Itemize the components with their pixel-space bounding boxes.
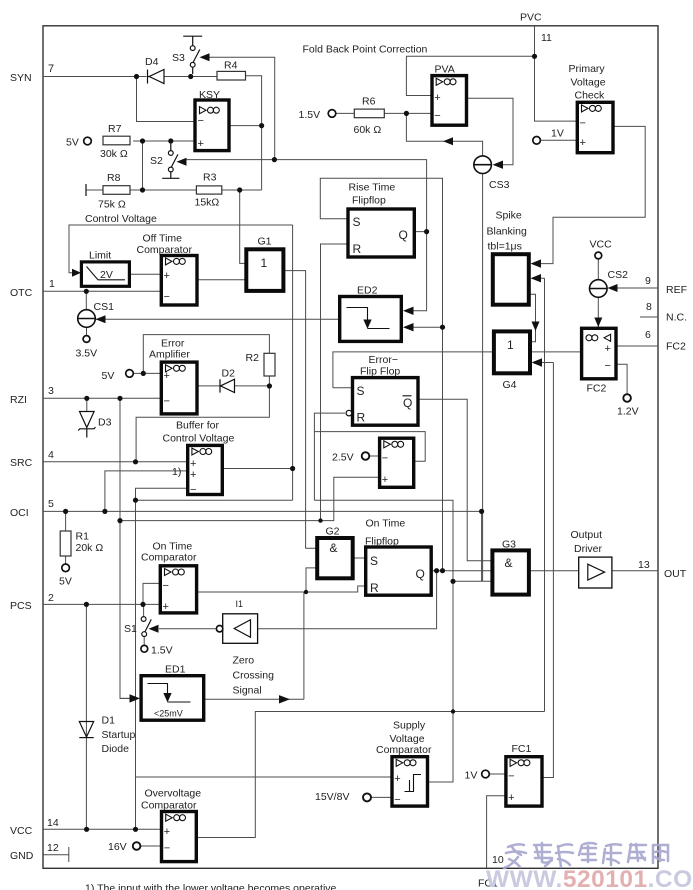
PVA symbol [436, 78, 443, 85]
svg-text:R1: R1 [76, 531, 90, 543]
arrow into ED2 top [403, 307, 414, 315]
svg-text:+: + [394, 773, 400, 785]
svg-text:Q: Q [416, 567, 425, 581]
svg-text:8: 8 [646, 301, 652, 313]
svg-text:+: + [164, 370, 170, 382]
svg-text:FC2: FC2 [666, 341, 686, 353]
wire S3 control from Q line [209, 57, 275, 159]
wire CS3 down [482, 174, 484, 582]
startup diode D1 [79, 722, 93, 738]
svg-text:Driver: Driver [574, 543, 603, 555]
terminal 5V at error amplifier [126, 370, 134, 378]
comparator KSY box [195, 100, 229, 151]
on time flipflop box [366, 547, 432, 595]
svg-text:GND: GND [10, 850, 34, 862]
svg-text:Buffer for: Buffer for [176, 420, 219, 432]
edge detector ED2 icon [347, 308, 390, 329]
KSY symbol [200, 107, 207, 114]
svg-text:14: 14 [47, 817, 59, 829]
wire G3 bottom input [453, 580, 492, 582]
wire ErrorFF S to G4 line [333, 352, 582, 388]
wire I1 input from Q [258, 571, 437, 629]
wire FC1 plus from pin10 [487, 796, 506, 868]
svg-text:<25mV: <25mV [154, 709, 183, 719]
svg-text:SRC: SRC [10, 457, 33, 469]
wire D2 to R2 bottom node [235, 376, 270, 386]
wire FC2 minus to 1.2V [616, 364, 627, 394]
wire zero cross column [303, 592, 305, 699]
terminal VCC at CS2 [595, 252, 602, 259]
terminal 3.5V [83, 336, 90, 343]
svg-text:15kΩ: 15kΩ [195, 197, 220, 209]
svg-text:R3: R3 [203, 172, 217, 184]
wire S1 top [143, 583, 160, 616]
wire R4 right to vertical [246, 76, 262, 190]
svg-text:5V: 5V [59, 576, 72, 588]
terminal 1.2V [623, 394, 631, 402]
output driver box [579, 557, 612, 588]
svg-text:OUT: OUT [664, 568, 687, 580]
svg-text:−: − [382, 453, 388, 465]
svg-text:Flipflop: Flipflop [365, 536, 399, 548]
wire 5V to ErrorAmp plus [134, 372, 162, 374]
arrow CS2 into FC2 [594, 318, 602, 328]
gate G4 box [494, 331, 530, 373]
wire OCI bus pin5 [43, 510, 482, 512]
svg-text:Amplifier: Amplifier [149, 349, 190, 361]
diode D2 [220, 379, 235, 392]
svg-text:D2: D2 [222, 368, 236, 380]
wire feedback down to SVC plus [136, 500, 393, 777]
terminal 2.5V [362, 452, 370, 460]
wire G3 out to driver [529, 570, 579, 572]
limit block icon 2V [87, 267, 126, 280]
wire S1 control from I1 [159, 628, 216, 630]
svg-text:REF: REF [666, 284, 687, 296]
svg-text:VCC: VCC [10, 825, 33, 837]
svg-text:15V/8V: 15V/8V [315, 791, 349, 803]
current source CS1 [78, 310, 96, 328]
rise time flipflop box [348, 209, 414, 257]
svg-text:CS1: CS1 [94, 301, 115, 313]
wire SYN pin7 [43, 76, 147, 78]
wire 5V R7 to KSY plus [133, 140, 195, 142]
edge detector ED1 box [141, 676, 204, 721]
terminal 1V at FC1 [482, 770, 490, 778]
wire ED1 input [120, 697, 132, 699]
wire OffTime comparator out to G1 [197, 279, 246, 281]
svg-text:S3: S3 [172, 52, 185, 64]
svg-text:1) The input with the lower vo: 1) The input with the lower voltage beco… [85, 883, 339, 890]
diode D4 [148, 70, 165, 84]
arrow into ED1 [130, 694, 141, 702]
svg-text:S: S [370, 554, 378, 568]
svg-text:5: 5 [48, 498, 54, 510]
on time comparator symbol [165, 569, 172, 576]
wire feedback down to VCC node [135, 777, 137, 829]
inverter I1 triangle and bubble [216, 620, 250, 638]
svg-text:10: 10 [492, 854, 504, 866]
resistor R6 [354, 109, 384, 118]
svg-text:OTC: OTC [10, 287, 33, 299]
wire OVC output loop [196, 712, 544, 838]
2.5V comparator symbol [384, 441, 391, 448]
wire PCS pin2 [43, 603, 160, 605]
svg-text:Flipflop: Flipflop [352, 195, 386, 207]
arrow into Limit [72, 269, 81, 277]
svg-text:R4: R4 [224, 60, 238, 72]
wire 15V8V to SVC minus [372, 796, 393, 798]
svg-text:S1: S1 [124, 623, 137, 635]
primary voltage check symbol [582, 105, 589, 112]
svg-text:Comparator: Comparator [137, 244, 193, 256]
wire R8 R3 line [86, 189, 262, 191]
wire R3 node down to G1 input [240, 190, 247, 263]
arrow into spike blanking 1 [531, 259, 542, 267]
svg-text:1: 1 [507, 338, 514, 352]
current source CS2 [590, 280, 608, 298]
wire spike blanking out to G4 [529, 294, 536, 342]
limit block box [81, 262, 129, 286]
svg-text:G3: G3 [502, 539, 516, 551]
arrowheads [72, 53, 618, 703]
svg-text:3: 3 [48, 385, 54, 397]
supply voltage comparator symbol [396, 759, 403, 766]
wire Rise FF Q down to ED2 arrow1 [412, 232, 427, 311]
off time comparator symbol [166, 258, 173, 265]
svg-text:Error−: Error− [369, 354, 398, 366]
arrow on R6 CS3 line [443, 137, 453, 145]
resistor R7 [103, 136, 130, 145]
wire OCI node up to buffer input2 [105, 471, 188, 512]
edge detector ED1 icon [148, 684, 191, 703]
wire FC1 output up to G4 [541, 363, 553, 778]
svg-text:Control Voltage: Control Voltage [163, 433, 235, 445]
svg-text:Check: Check [575, 90, 606, 102]
svg-text:−: − [394, 794, 400, 806]
wire R1 top [65, 511, 67, 531]
wire CS2 down to FC2 [597, 298, 599, 328]
svg-text:+: + [198, 138, 204, 150]
resistors [60, 71, 384, 556]
svg-text:ED2: ED2 [357, 285, 378, 297]
svg-text:1V: 1V [465, 770, 478, 782]
svg-text:5V: 5V [102, 370, 115, 382]
current source CS3 [474, 156, 492, 174]
wire S1 bottom to 1.5V [143, 637, 145, 646]
wire R2 node down and left to SRC node [136, 386, 269, 462]
error FF reset bubble [346, 410, 352, 416]
svg-text:KSY: KSY [199, 89, 220, 101]
wire FC2 plus pin6 [616, 345, 658, 347]
wire ErrorAmp out to D2 [197, 385, 220, 387]
wire NC pin8 stub [640, 316, 658, 318]
wire 1V to PVcheck plus [541, 139, 578, 141]
svg-text:Comparator: Comparator [141, 552, 197, 564]
overvoltage comparator symbol [166, 814, 173, 821]
svg-text:+: + [164, 826, 170, 838]
svg-text:−: − [164, 843, 170, 855]
wire OnTimeComp out up to G2 [306, 568, 317, 592]
wire 2.5V to comp minus [370, 455, 380, 457]
spike blanking box [493, 254, 529, 305]
svg-text:11: 11 [541, 32, 552, 44]
svg-text:Flip Flop: Flip Flop [360, 366, 400, 378]
svg-text:ED1: ED1 [165, 664, 186, 676]
svg-text:S2: S2 [150, 155, 163, 167]
svg-text:−: − [164, 291, 170, 303]
svg-text:−: − [434, 110, 440, 122]
switch S1 [141, 617, 151, 637]
component boxes [81, 76, 616, 862]
arrow into S3 [200, 53, 210, 61]
wire ErrorFF R input [314, 413, 345, 500]
wire 1.5V R6 to PVA minus [336, 112, 432, 114]
arrow spike blanking out down [532, 322, 540, 332]
comparator FC2 box [582, 328, 616, 379]
svg-text:R: R [370, 581, 379, 595]
wire PVcheck out to spike blanking [540, 126, 645, 263]
zener diode D3 [78, 412, 95, 438]
svg-text:Zero: Zero [233, 655, 255, 667]
wire S2/S3 control line from Rise FF Q [186, 160, 427, 232]
svg-text:Control Voltage: Control Voltage [85, 213, 157, 225]
terminal 1V at primary voltage check [533, 137, 541, 145]
svg-text:1.2V: 1.2V [617, 406, 639, 418]
svg-text:S: S [353, 215, 361, 229]
comparator 2.5V box [380, 438, 414, 487]
wire 16V to OVC minus [141, 845, 162, 847]
wire R1 bottom to 5V [65, 556, 67, 564]
svg-text:R6: R6 [362, 96, 376, 108]
svg-text:60k Ω: 60k Ω [354, 124, 382, 136]
wire VCC pin14 [43, 828, 162, 830]
svg-text:16V: 16V [108, 841, 127, 853]
FC2 mirrored symbol [586, 335, 592, 341]
svg-text:Rise Time: Rise Time [349, 182, 396, 194]
svg-text:6: 6 [645, 329, 651, 341]
svg-text:3.5V: 3.5V [76, 348, 98, 360]
svg-text:Overvoltage: Overvoltage [145, 788, 202, 800]
gate G1 box [246, 249, 283, 291]
svg-text:+: + [434, 92, 440, 104]
buffer for control voltage box [188, 445, 223, 494]
wire RZI node down to D3 [86, 398, 88, 411]
wire CS1 to ED2 line [96, 318, 340, 320]
wire KSY output [229, 125, 262, 127]
wire control voltage feedback to Limit [69, 225, 293, 273]
wire Limit out to OffTime plus [129, 273, 161, 275]
arrow into CS1 [96, 315, 106, 323]
svg-text:1: 1 [261, 256, 268, 270]
svg-text:R2: R2 [246, 352, 260, 364]
wire R7 node down to R8 node [142, 141, 144, 190]
wire REF pin9 [616, 287, 658, 289]
svg-text:1.5V: 1.5V [299, 109, 321, 121]
svg-text:2V: 2V [100, 269, 113, 281]
svg-text:&: & [330, 541, 338, 555]
wire SRC pin4 to buffer input [43, 461, 188, 463]
wire buffer minus feedback [136, 488, 188, 500]
svg-text:+: + [382, 474, 388, 486]
gate G3 box [492, 550, 529, 594]
svg-text:30k Ω: 30k Ω [100, 148, 128, 160]
resistor R2 [264, 353, 275, 376]
arrow into CS2 [608, 284, 618, 292]
svg-text:Comparator: Comparator [376, 744, 432, 756]
svg-text:tbl=1μs: tbl=1μs [488, 241, 522, 253]
svg-text:+: + [190, 469, 196, 481]
svg-text:−: − [198, 115, 204, 127]
edge detector ED2 box [340, 297, 402, 342]
supply voltage comparator box [392, 757, 428, 806]
svg-text:Primary: Primary [569, 63, 606, 75]
hysteresis icon in supply voltage comparator [405, 775, 422, 792]
wire PVC to PVA plus [406, 56, 534, 95]
svg-text:D3: D3 [98, 417, 112, 429]
wire ErrorFF Qbar to G3 [418, 399, 492, 560]
svg-text:2.5V: 2.5V [332, 452, 354, 464]
wire PVC pin11 [535, 26, 578, 121]
svg-text:20k Ω: 20k Ω [76, 542, 104, 554]
Qbar overbar [403, 395, 412, 397]
svg-text:R8: R8 [107, 172, 121, 184]
inverter I1 box [223, 614, 258, 644]
svg-text:PCS: PCS [10, 600, 32, 612]
wire PVA out to CS3 [467, 98, 514, 165]
svg-text:N.C.: N.C. [666, 312, 687, 324]
svg-text:Off Time: Off Time [143, 233, 183, 245]
svg-text:Fold Back Point Correction: Fold Back Point Correction [303, 44, 428, 56]
wire RZI pin3 to ErrorAmp minus [43, 397, 161, 399]
svg-text:1.5V: 1.5V [151, 645, 173, 657]
svg-text:PVC: PVC [520, 12, 542, 24]
svg-text:Q: Q [399, 228, 408, 242]
svg-text:Limit: Limit [89, 250, 111, 262]
svg-text:D1: D1 [102, 715, 116, 727]
svg-text:CS3: CS3 [489, 179, 510, 191]
wire 1V to FC1 minus [490, 773, 506, 775]
svg-text:−: − [190, 484, 196, 496]
switch S2 [162, 144, 179, 179]
svg-text:Blanking: Blanking [487, 226, 527, 238]
R8 left terminal bar [85, 184, 87, 196]
wire D4 to S3 junction [164, 76, 217, 78]
terminal 15V8V [363, 793, 371, 801]
comparator PVA box [432, 76, 467, 126]
svg-text:Signal: Signal [233, 685, 262, 697]
svg-text:1: 1 [49, 278, 55, 290]
svg-text:Diode: Diode [102, 743, 130, 755]
wire CS1 to 3.5V terminal [86, 328, 88, 336]
wire D4 junction down to KSY minus [137, 77, 196, 122]
wire OTC pin1 [43, 290, 161, 292]
svg-text:−: − [605, 360, 611, 372]
output driver triangle [588, 564, 605, 580]
wire feedback bottom [136, 499, 293, 501]
svg-text:1V: 1V [551, 128, 564, 140]
svg-text:R7: R7 [108, 123, 122, 135]
wire G2 output to S [353, 557, 366, 559]
comparator symbols triangle-infinity [165, 78, 611, 821]
svg-text:13: 13 [638, 559, 650, 571]
gate G2 box [317, 538, 353, 578]
wire R6 node down CS3 top [406, 113, 482, 155]
arrow into CS3 [493, 161, 504, 169]
off time comparator box [161, 256, 197, 306]
svg-text:7: 7 [48, 63, 54, 75]
svg-text:Crossing: Crossing [233, 670, 275, 682]
svg-text:OCI: OCI [10, 507, 29, 519]
wire OnTime FF Q to G3 [431, 570, 492, 572]
svg-text:RZI: RZI [10, 394, 27, 406]
svg-text:R: R [357, 411, 366, 425]
resistor R4 [217, 71, 246, 80]
wire OVC line up to spike blanking [540, 278, 545, 711]
arrow into ED2 bottom [403, 323, 414, 331]
svg-text:+: + [580, 137, 586, 149]
svg-text:−: − [164, 396, 170, 408]
buffer symbol [192, 448, 199, 455]
svg-text:+: + [605, 343, 611, 355]
wire bus2 [120, 477, 380, 520]
svg-text:CS2: CS2 [608, 269, 629, 281]
svg-text:−: − [163, 580, 169, 592]
wire driver to OUT pin13 [612, 570, 658, 572]
arrow FC1 into G4 [532, 358, 543, 366]
terminal 1.5V at S1 [141, 645, 148, 652]
wire GND stub pin12 [43, 847, 69, 862]
wire 2.5V comp output loop [314, 432, 425, 462]
FC1 symbol [510, 759, 516, 766]
primary voltage check box [577, 102, 613, 152]
comparator FC1 box [506, 757, 542, 806]
wire reset bus to G3 and SVC [314, 500, 453, 782]
svg-text:WWW.520101.COM: WWW.520101.COM [486, 866, 693, 890]
terminal 1.5V at R6 [328, 110, 336, 118]
error amplifier box [161, 362, 197, 414]
svg-text:12: 12 [47, 842, 59, 854]
svg-text:VCC: VCC [590, 239, 613, 251]
error amplifier symbol [166, 365, 173, 372]
svg-text:1): 1) [172, 466, 181, 478]
svg-text:G1: G1 [258, 236, 272, 248]
wire Q node up to ED2 and Rise FF S [320, 178, 442, 570]
svg-text:+: + [508, 792, 514, 804]
svg-text:FC2: FC2 [587, 383, 607, 395]
wire buffer output [222, 468, 292, 470]
svg-text:+: + [164, 270, 170, 282]
error flip flop box [353, 378, 419, 426]
svg-text:5V: 5V [66, 137, 79, 149]
svg-text:+: + [163, 601, 169, 613]
svg-text:I1: I1 [236, 599, 244, 609]
wire OTC node to CS1 [85, 291, 87, 309]
svg-text:On Time: On Time [366, 518, 406, 530]
wire RZI node down zero crossing column [120, 398, 131, 698]
svg-text:Voltage: Voltage [571, 77, 606, 89]
svg-text:S: S [357, 384, 365, 398]
svg-text:Output: Output [571, 529, 603, 541]
wire G1 output [283, 271, 317, 549]
svg-text:9: 9 [645, 275, 651, 287]
terminal 16V [133, 842, 141, 850]
svg-text:Spike: Spike [496, 210, 522, 222]
wire Rise FF R tap [321, 244, 349, 520]
svg-text:R: R [353, 242, 362, 256]
svg-text:Supply: Supply [393, 720, 426, 732]
svg-text:G4: G4 [503, 379, 517, 391]
